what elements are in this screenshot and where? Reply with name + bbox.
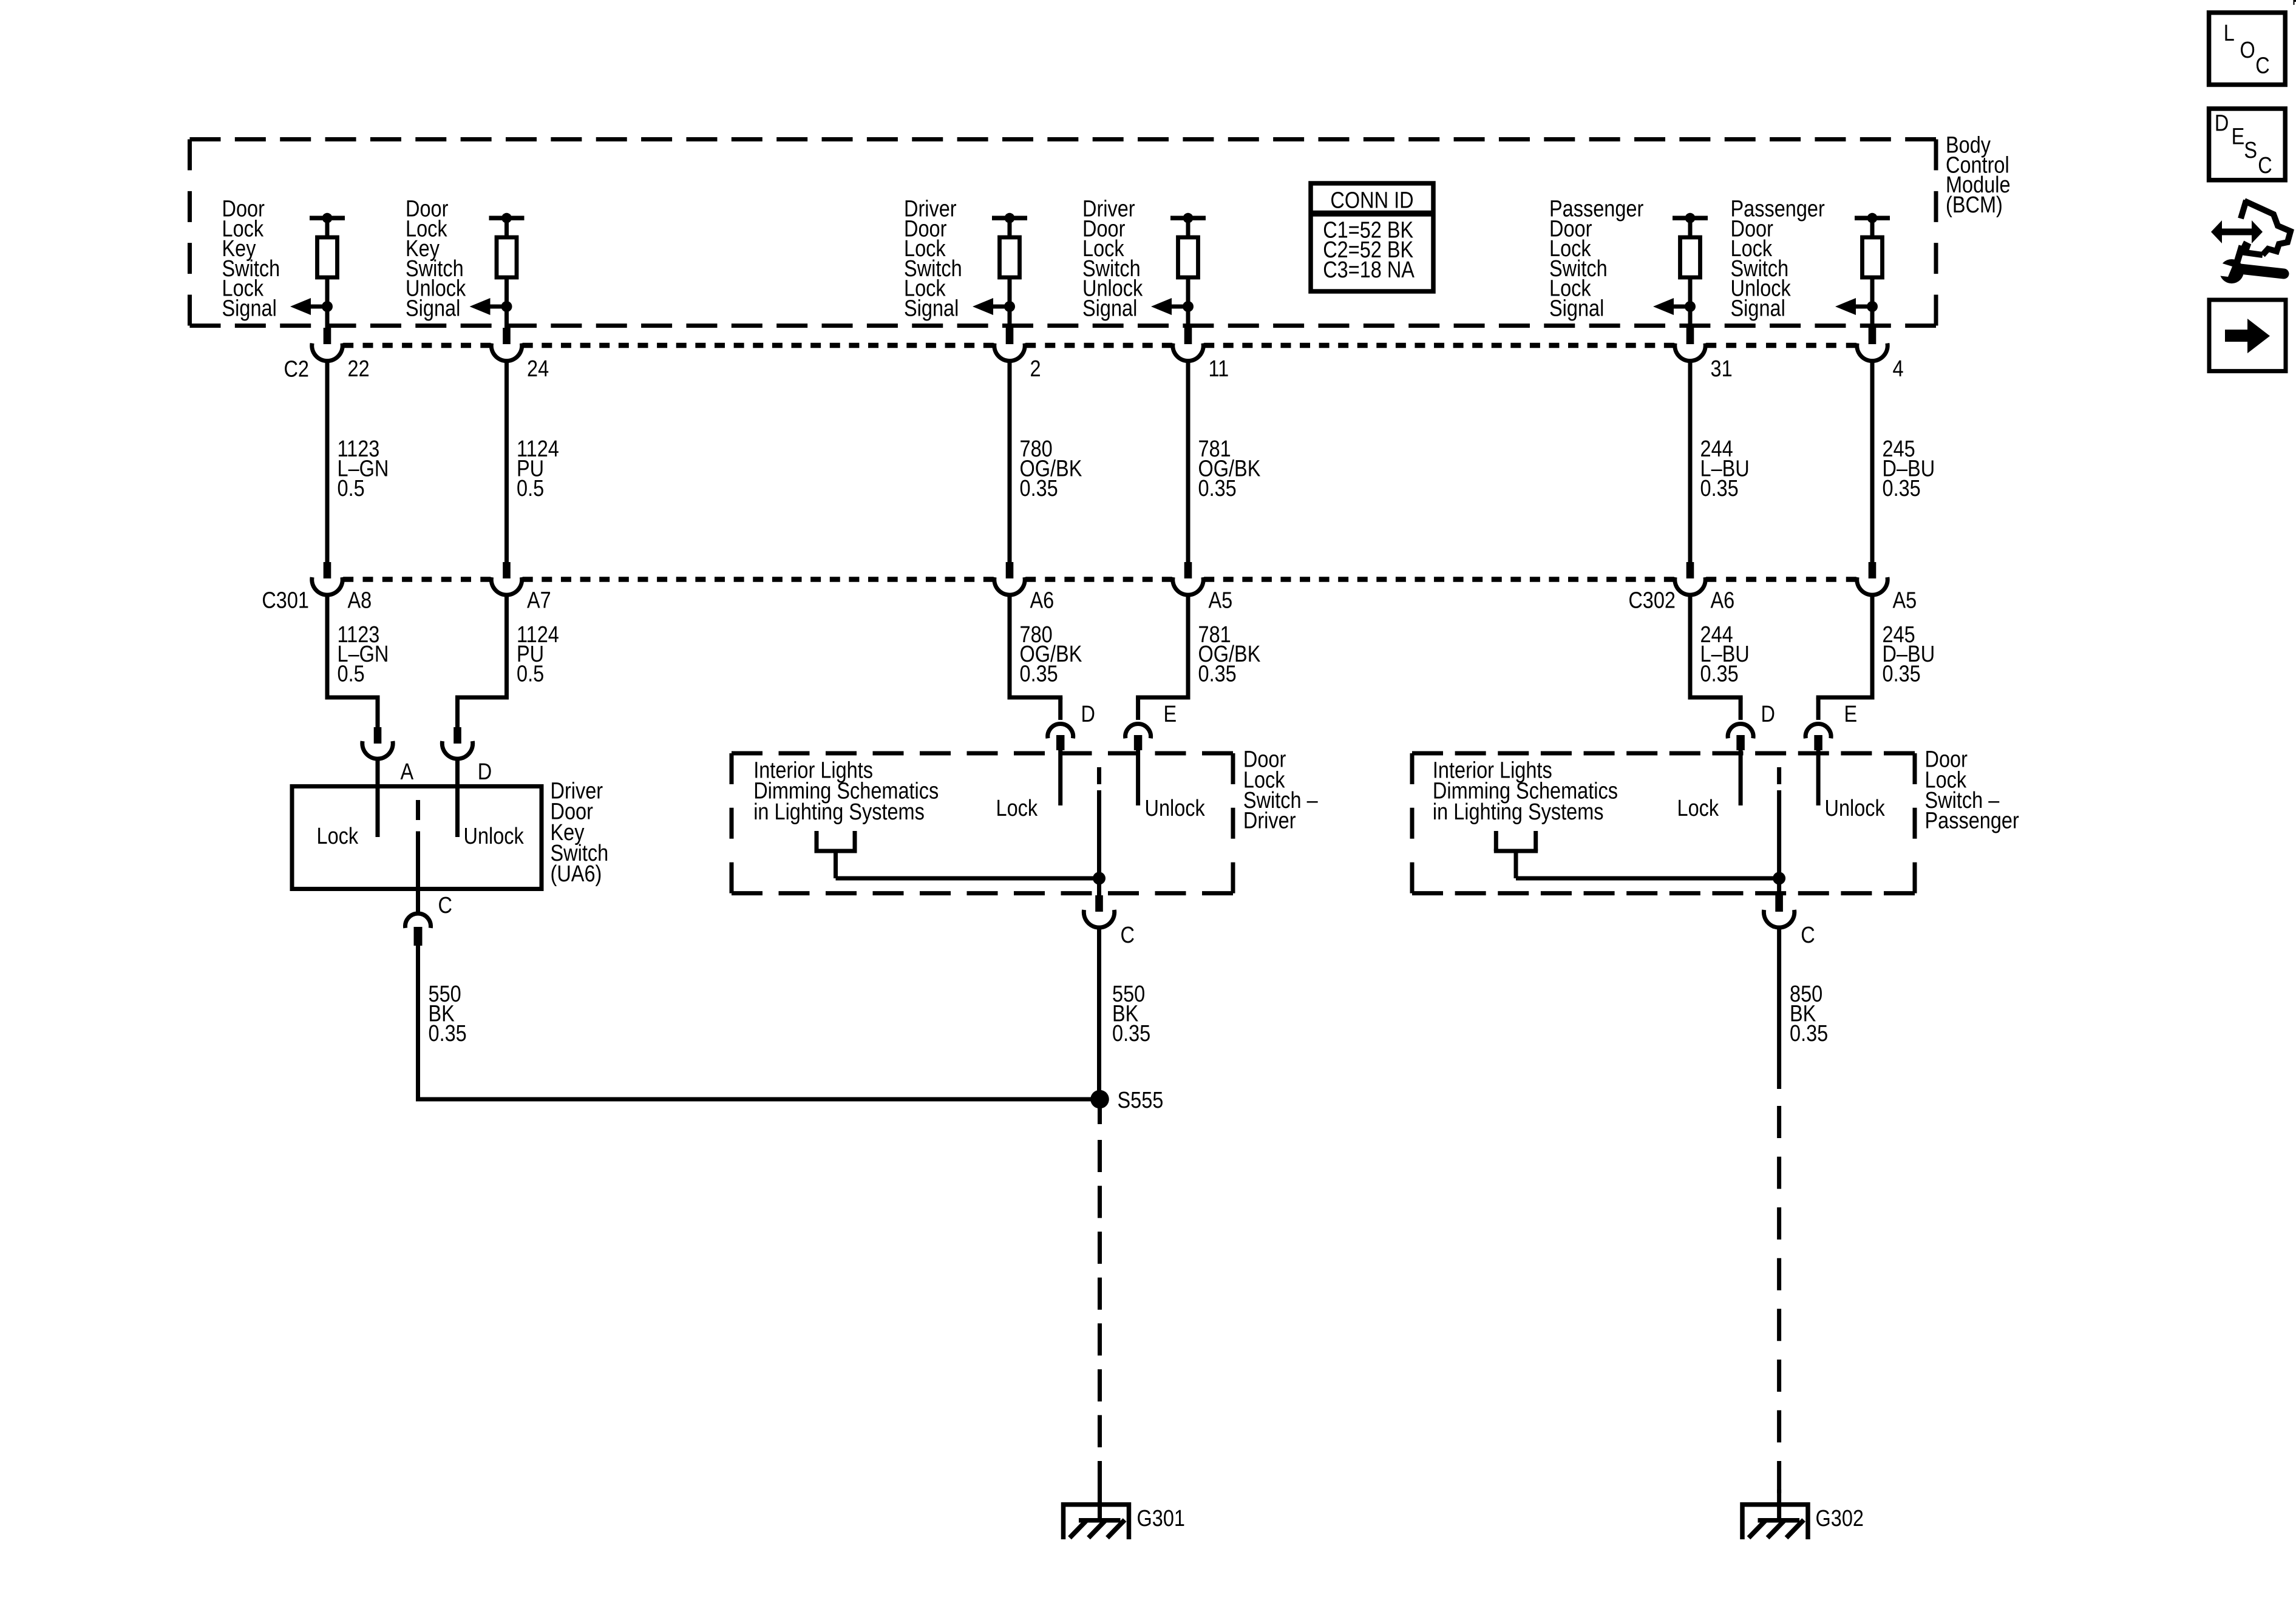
wire: branch 3 drop below row2 with elbow — [1008, 595, 1063, 720]
connector cup (female terminal) row C2, branch 3 — [994, 344, 1025, 361]
connector cup (female terminal) row C2, branch 4 — [1173, 344, 1203, 361]
label Lock (key switch) — [317, 824, 359, 849]
connector cup (female terminal) row 2, branch 3 — [994, 577, 1025, 595]
svg-text:Signal: Signal — [904, 296, 959, 321]
svg-text:G301: G301 — [1137, 1506, 1185, 1531]
driver switch common line and junction — [1093, 767, 1106, 896]
node: signal junction dot, branch 2 — [501, 301, 512, 312]
wire: harness between BCM connector and C301/C302, branch 5 — [1688, 361, 1693, 562]
signal arrow, branch 5 — [1653, 298, 1690, 315]
svg-text:C3=18 NA: C3=18 NA — [1323, 257, 1415, 282]
switch box: Driver Door Key Switch (UA6) — [292, 787, 542, 889]
connector cup (female terminal) row C2, branch 2 — [491, 344, 521, 361]
node: signal junction dot, branch 5 — [1685, 301, 1696, 312]
svg-text:Signal: Signal — [406, 296, 460, 321]
label: Passenger Door Lock Switch Unlock Signal — [1731, 196, 1826, 321]
svg-text:E: E — [2232, 124, 2245, 149]
label G301 — [1137, 1506, 1185, 1531]
connector pin A6 (male terminal) row 2, branch 5 — [1686, 562, 1694, 578]
resistor: Passenger Door Lock Switch Unlock Signal — [1863, 237, 1883, 277]
label: Door Lock Switch - Passenger — [1925, 747, 2020, 833]
svg-text:0.35: 0.35 — [1700, 661, 1739, 686]
label pin D — [478, 759, 492, 785]
wire: BCM output to connector C2 pin, branch 2 — [504, 307, 509, 328]
wire: BCM output to connector C2 pin, branch 6 — [1870, 307, 1875, 328]
label S555 — [1118, 1088, 1164, 1113]
svg-text:24: 24 — [527, 356, 549, 382]
signal arrow, branch 3 — [973, 298, 1010, 315]
svg-text:Lock: Lock — [1677, 796, 1719, 821]
Body Control Module (BCM) dashed outline box — [190, 140, 1937, 326]
svg-text:0.35: 0.35 — [1198, 661, 1237, 686]
wire: supply bar to resistor, branch 3 — [1008, 218, 1012, 238]
svg-text:A5: A5 — [1209, 588, 1233, 613]
connector row C2 dotted line — [343, 343, 1856, 348]
svg-text:C: C — [2255, 53, 2269, 78]
pin number label 2 — [1030, 356, 1041, 382]
svg-text:C: C — [438, 892, 452, 918]
wire: branch 4 drop below row2 with elbow — [1136, 595, 1190, 720]
svg-text:A: A — [401, 759, 414, 785]
svg-text:4: 4 — [1893, 356, 1904, 382]
svg-text:31: 31 — [1711, 356, 1733, 382]
resistor: Driver Door Lock Switch Lock Signal — [1000, 237, 1020, 277]
wire label 781 OG/BK lower — [1198, 622, 1261, 686]
label: Interior Lights Dimming Schematics (driver) — [753, 758, 939, 824]
wire label 550 BK 0.35 (left) — [429, 981, 467, 1046]
pin number label 24 — [527, 356, 549, 382]
splice S555 junction dot — [1090, 1090, 1109, 1109]
wire: harness between BCM connector and C301/C302, branch 2 — [504, 361, 509, 562]
connector cup C (female) passenger switch — [1764, 910, 1794, 927]
connector pin 11 (male terminal), branch 4 — [1184, 328, 1192, 344]
page corner mark — [2294, 0, 2296, 5]
connector cup (female terminal) row C2, branch 1 — [312, 344, 342, 361]
svg-text:0.35: 0.35 — [429, 1021, 467, 1046]
svg-text:22: 22 — [348, 356, 370, 382]
icon box forward arrow — [2209, 300, 2286, 371]
svg-text:C: C — [1121, 923, 1135, 948]
pin letter label A5 — [1209, 588, 1233, 613]
wire 550 BK: horizontal run to S555 — [416, 1097, 1100, 1102]
connector cup E (female, faces down) passenger switch — [1805, 724, 1831, 739]
wire: branch 5 drop below row2 with elbow — [1688, 595, 1743, 720]
connector pin C (male) driver switch — [1095, 895, 1103, 912]
BCM internal supply bar, branch 4 — [1170, 213, 1206, 223]
svg-text:0.5: 0.5 — [517, 475, 544, 501]
BCM internal supply bar, branch 3 — [992, 213, 1027, 223]
resistor: Door Lock Key Switch Lock Signal — [318, 237, 338, 277]
ground G302 — [1741, 1502, 1810, 1539]
wire label 1124 PU lower — [517, 622, 559, 686]
wire: switch contact below connector at x=1874.6 — [1136, 750, 1140, 805]
pin letter label A6 — [1030, 588, 1055, 613]
wire label 245 D–BU upper — [1883, 436, 1935, 501]
wire label 780 OG/BK lower — [1020, 622, 1082, 686]
wire: resistor to signal node, branch 4 — [1186, 277, 1190, 307]
svg-text:0.35: 0.35 — [1700, 475, 1739, 501]
label pin E (passenger switch) — [1844, 702, 1858, 727]
pin number label 22 — [348, 356, 370, 382]
BCM internal supply bar, branch 2 — [489, 213, 525, 223]
BCM name label — [1946, 132, 2011, 217]
connector pin (male, points up) at x=2867.1 — [1736, 735, 1745, 750]
wire: dimmer tap to common junction (driver) — [836, 876, 1099, 881]
resistor: Passenger Door Lock Switch Lock Signal — [1680, 237, 1700, 277]
wire: switch contact below connector at x=1746.7 — [1058, 750, 1062, 805]
connector cup (female terminal) row 2, branch 4 — [1173, 577, 1203, 595]
wire label 245 D–BU lower — [1883, 622, 1935, 686]
svg-text:0.35: 0.35 — [1112, 1021, 1150, 1046]
svg-text:Passenger: Passenger — [1925, 808, 2020, 833]
dashed box: Door Lock Switch - Driver — [732, 753, 1233, 893]
svg-text:A6: A6 — [1711, 588, 1735, 613]
connector pin A5 (male terminal) row 2, branch 4 — [1184, 562, 1192, 578]
connector cup A (female) at key switch — [362, 741, 393, 759]
svg-text:Signal: Signal — [1082, 296, 1137, 321]
svg-text:D: D — [1081, 702, 1095, 727]
wire: supply bar to resistor, branch 2 — [504, 218, 509, 238]
icon: adjust-hand with double arrow and wrench — [2211, 200, 2291, 283]
CONN ID entries — [1323, 217, 1415, 282]
resistor: Driver Door Lock Switch Unlock Signal — [1178, 237, 1198, 277]
wire label 850 BK 0.35 — [1790, 981, 1828, 1046]
svg-text:Unlock: Unlock — [464, 824, 525, 849]
wire label 244 L–BU lower — [1700, 622, 1750, 686]
label pin C (driver switch) — [1121, 923, 1135, 948]
wire: resistor to signal node, branch 1 — [325, 277, 330, 307]
label: Passenger Door Lock Switch Lock Signal — [1549, 196, 1644, 321]
wire: branch 6 drop below row2 with elbow — [1816, 595, 1875, 720]
wire 550 BK: key switch C down to corner — [416, 944, 420, 1099]
wire: supply bar to resistor, branch 6 — [1870, 218, 1875, 238]
svg-text:Driver: Driver — [1243, 808, 1296, 833]
connector pin (male, points up) at x=1874.6 — [1134, 735, 1143, 750]
pin number label 4 — [1893, 356, 1904, 382]
svg-text:0.35: 0.35 — [1198, 475, 1237, 501]
svg-text:Unlock: Unlock — [1825, 796, 1886, 821]
connector cup D (female) at key switch — [442, 741, 472, 759]
svg-text:11: 11 — [1209, 356, 1229, 382]
wire 550 BK: driver switch C to S555 — [1097, 927, 1101, 1099]
connector cup (female terminal) row 2, branch 2 — [491, 577, 521, 595]
node: signal junction dot, branch 6 — [1867, 301, 1878, 312]
connector pin 24 (male terminal), branch 2 — [503, 328, 511, 344]
svg-text:A8: A8 — [348, 588, 372, 613]
svg-text:S555: S555 — [1118, 1088, 1164, 1113]
svg-text:CONN ID: CONN ID — [1330, 188, 1413, 213]
wire label 781 OG/BK upper — [1198, 436, 1261, 501]
connector row C301/C302 dotted line — [343, 577, 1856, 582]
wire: BCM output to connector C2 pin, branch 4 — [1186, 307, 1190, 328]
wire label 780 OG/BK upper — [1020, 436, 1082, 501]
label: Driver Door Key Switch (UA6) — [551, 778, 609, 886]
label pin A — [401, 759, 414, 785]
svg-text:C301: C301 — [262, 588, 309, 613]
CONN ID table box — [1311, 183, 1433, 291]
pin number label 11 — [1209, 356, 1229, 382]
wire: switch contact below connector at x=2867.1 — [1739, 750, 1743, 805]
dashed box: Door Lock Switch - Passenger — [1412, 753, 1915, 893]
svg-text:A5: A5 — [1893, 588, 1917, 613]
connector pin 22 (male terminal), branch 1 — [324, 328, 331, 344]
label pin D (passenger switch) — [1761, 702, 1775, 727]
connector pin A6 (male terminal) row 2, branch 3 — [1006, 562, 1014, 578]
BCM internal supply bar, branch 6 — [1855, 213, 1890, 223]
wire: cup D into key switch box — [455, 759, 460, 837]
connector pin C (male) passenger switch — [1775, 895, 1783, 912]
svg-text:Lock: Lock — [317, 824, 359, 849]
resistor: Door Lock Key Switch Unlock Signal — [497, 237, 517, 277]
svg-text:0.35: 0.35 — [1790, 1021, 1828, 1046]
icon box DESC — [2209, 109, 2286, 180]
connector pin (male, points up) at x=1746.7 — [1056, 735, 1065, 750]
connector cup (female terminal) row 2, branch 6 — [1857, 577, 1887, 595]
connector label C302 — [1628, 588, 1676, 613]
label G302 — [1816, 1506, 1864, 1531]
label: Interior Lights Dimming Schematics (passenger) — [1433, 758, 1618, 824]
connector label C301 — [262, 588, 309, 613]
svg-text:D: D — [2215, 110, 2229, 136]
connector label C2 — [284, 356, 309, 382]
svg-text:0.5: 0.5 — [338, 661, 365, 686]
wire label 244 L–BU upper — [1700, 436, 1750, 501]
label: Driver Door Lock Switch Unlock Signal — [1082, 196, 1143, 321]
connector cup D (female, faces down) driver switch — [1048, 724, 1073, 739]
ground G301 — [1061, 1502, 1131, 1539]
signal arrow, branch 1 — [290, 298, 327, 315]
connector cup C (female, faces down) at key switch — [406, 914, 431, 928]
BCM internal supply bar, branch 1 — [310, 213, 345, 223]
key switch common dashed actuator line — [416, 800, 420, 912]
wire: BCM output to connector C2 pin, branch 3 — [1008, 307, 1012, 328]
wire: resistor to signal node, branch 3 — [1008, 277, 1012, 307]
wire: dimmer tap to common junction (passenger) — [1516, 876, 1779, 881]
wire: BCM output to connector C2 pin, branch 5 — [1688, 307, 1693, 328]
svg-text:C302: C302 — [1628, 588, 1676, 613]
svg-text:in Lighting Systems: in Lighting Systems — [1433, 799, 1604, 824]
svg-text:0.35: 0.35 — [1020, 475, 1058, 501]
connector cup (female terminal) row 2, branch 1 — [312, 577, 342, 595]
pin letter label A7 — [527, 588, 551, 613]
wire: to G302 (dashed reference) — [1777, 1106, 1781, 1520]
icon box LOC — [2209, 13, 2286, 85]
label Unlock (key switch) — [464, 824, 525, 849]
label: Door Lock Switch - Driver — [1243, 747, 1318, 833]
connector pin 4 (male terminal), branch 6 — [1869, 328, 1877, 344]
wire 850 BK: passenger switch C down — [1777, 927, 1781, 1089]
pin letter label A6 — [1711, 588, 1735, 613]
label: Driver Door Lock Switch Lock Signal — [904, 196, 962, 321]
wire: branch 2 drop below row2 with elbow — [455, 595, 509, 727]
label: Door Lock Key Switch Unlock Signal — [406, 196, 466, 321]
connector cup C (female) driver switch — [1084, 910, 1114, 927]
wire: supply bar to resistor, branch 1 — [325, 218, 330, 238]
wire: supply bar to resistor, branch 4 — [1186, 218, 1190, 238]
svg-text:D: D — [1761, 702, 1775, 727]
svg-text:E: E — [1164, 702, 1177, 727]
svg-text:L: L — [2224, 21, 2235, 46]
connector cup (female terminal) row 2, branch 5 — [1675, 577, 1705, 595]
BCM internal supply bar, branch 5 — [1673, 213, 1708, 223]
node: signal junction dot, branch 1 — [322, 301, 333, 312]
signal arrow, branch 2 — [470, 298, 507, 315]
connector pin 31 (male terminal), branch 5 — [1686, 328, 1694, 344]
wire: resistor to signal node, branch 2 — [504, 277, 509, 307]
svg-text:E: E — [1844, 702, 1858, 727]
label Unlock (passenger switch) — [1825, 796, 1886, 821]
connector pin 2 (male terminal), branch 3 — [1006, 328, 1014, 344]
connector cup E (female, faces down) driver switch — [1126, 724, 1151, 739]
svg-text:C2: C2 — [284, 356, 309, 382]
svg-text:Signal: Signal — [1731, 296, 1785, 321]
svg-text:in Lighting Systems: in Lighting Systems — [753, 799, 925, 824]
connector pin A (male) at key switch — [374, 727, 382, 744]
svg-text:0.35: 0.35 — [1883, 475, 1921, 501]
svg-text:G302: G302 — [1816, 1506, 1864, 1531]
pin letter label A5 — [1893, 588, 1917, 613]
svg-text:Unlock: Unlock — [1145, 796, 1206, 821]
wire label 1123 L–GN upper — [338, 436, 389, 501]
label pin C (key switch) — [438, 892, 452, 918]
wire label 1123 L–GN lower — [338, 622, 389, 686]
wire: resistor to signal node, branch 6 — [1870, 277, 1875, 307]
svg-text:0.5: 0.5 — [517, 661, 544, 686]
connector pin (male, points up) at x=2995.1 — [1814, 735, 1822, 750]
svg-text:(UA6): (UA6) — [551, 861, 602, 887]
svg-text:2: 2 — [1030, 356, 1041, 382]
label Lock (passenger switch) — [1677, 796, 1719, 821]
wire: harness between BCM connector and C301/C302, branch 3 — [1008, 361, 1012, 562]
wire: supply bar to resistor, branch 5 — [1688, 218, 1693, 238]
svg-text:A7: A7 — [527, 588, 551, 613]
svg-text:Signal: Signal — [1549, 296, 1604, 321]
pin number label 31 — [1711, 356, 1733, 382]
wire: resistor to signal node, branch 5 — [1688, 277, 1693, 307]
svg-text:0.35: 0.35 — [1883, 661, 1921, 686]
node: signal junction dot, branch 3 — [1004, 301, 1015, 312]
svg-text:(BCM): (BCM) — [1946, 192, 2003, 218]
wire: harness between BCM connector and C301/C302, branch 4 — [1186, 361, 1190, 562]
svg-text:Signal: Signal — [222, 296, 277, 321]
dimmer tap bracket (driver) — [815, 831, 857, 878]
label pin E (driver switch) — [1164, 702, 1177, 727]
signal arrow, branch 4 — [1151, 298, 1188, 315]
label pin C (passenger switch) — [1801, 923, 1815, 948]
dimmer tap bracket (passenger) — [1494, 831, 1538, 878]
connector cup D (female, faces down) passenger switch — [1728, 724, 1753, 739]
connector cup (female terminal) row C2, branch 5 — [1675, 344, 1705, 361]
connector pin A7 (male terminal) row 2, branch 2 — [503, 562, 511, 578]
wire: switch contact below connector at x=2995.1 — [1816, 750, 1821, 805]
wire: harness between BCM connector and C301/C302, branch 6 — [1870, 361, 1875, 562]
wire: harness between BCM connector and C301/C302, branch 1 — [325, 361, 330, 562]
svg-text:O: O — [2240, 38, 2255, 63]
svg-text:C: C — [1801, 923, 1815, 948]
svg-text:Lock: Lock — [996, 796, 1038, 821]
wire: BCM output to connector C2 pin, branch 1 — [325, 307, 330, 328]
connector pin D (male) at key switch — [453, 727, 461, 744]
pin letter label A8 — [348, 588, 372, 613]
svg-text:A6: A6 — [1030, 588, 1055, 613]
connector pin C (male, points up) — [414, 927, 423, 946]
signal arrow, branch 6 — [1835, 298, 1872, 315]
label Lock (driver switch) — [996, 796, 1038, 821]
CONN ID title — [1330, 188, 1413, 213]
wire: cup A into key switch box — [376, 759, 380, 837]
svg-text:S: S — [2244, 138, 2257, 163]
label pin D (driver switch) — [1081, 702, 1095, 727]
wire: branch 1 drop below row2 with elbow — [325, 595, 380, 727]
label: Door Lock Key Switch Lock Signal — [222, 196, 280, 321]
label Unlock (driver switch) — [1145, 796, 1206, 821]
wire: S555 to G301 (dashed reference) — [1098, 1099, 1102, 1520]
svg-text:0.35: 0.35 — [1020, 661, 1058, 686]
passenger switch common line and junction — [1773, 767, 1785, 896]
svg-text:0.5: 0.5 — [338, 475, 365, 501]
node: signal junction dot, branch 4 — [1183, 301, 1194, 312]
svg-text:C: C — [2258, 153, 2272, 178]
connector cup (female terminal) row C2, branch 6 — [1857, 344, 1887, 361]
wire label 1124 PU upper — [517, 436, 559, 501]
connector pin A5 (male terminal) row 2, branch 6 — [1869, 562, 1877, 578]
connector pin A8 (male terminal) row 2, branch 1 — [324, 562, 331, 578]
wire label 550 BK 0.35 (right) — [1112, 981, 1150, 1046]
svg-text:D: D — [478, 759, 492, 785]
